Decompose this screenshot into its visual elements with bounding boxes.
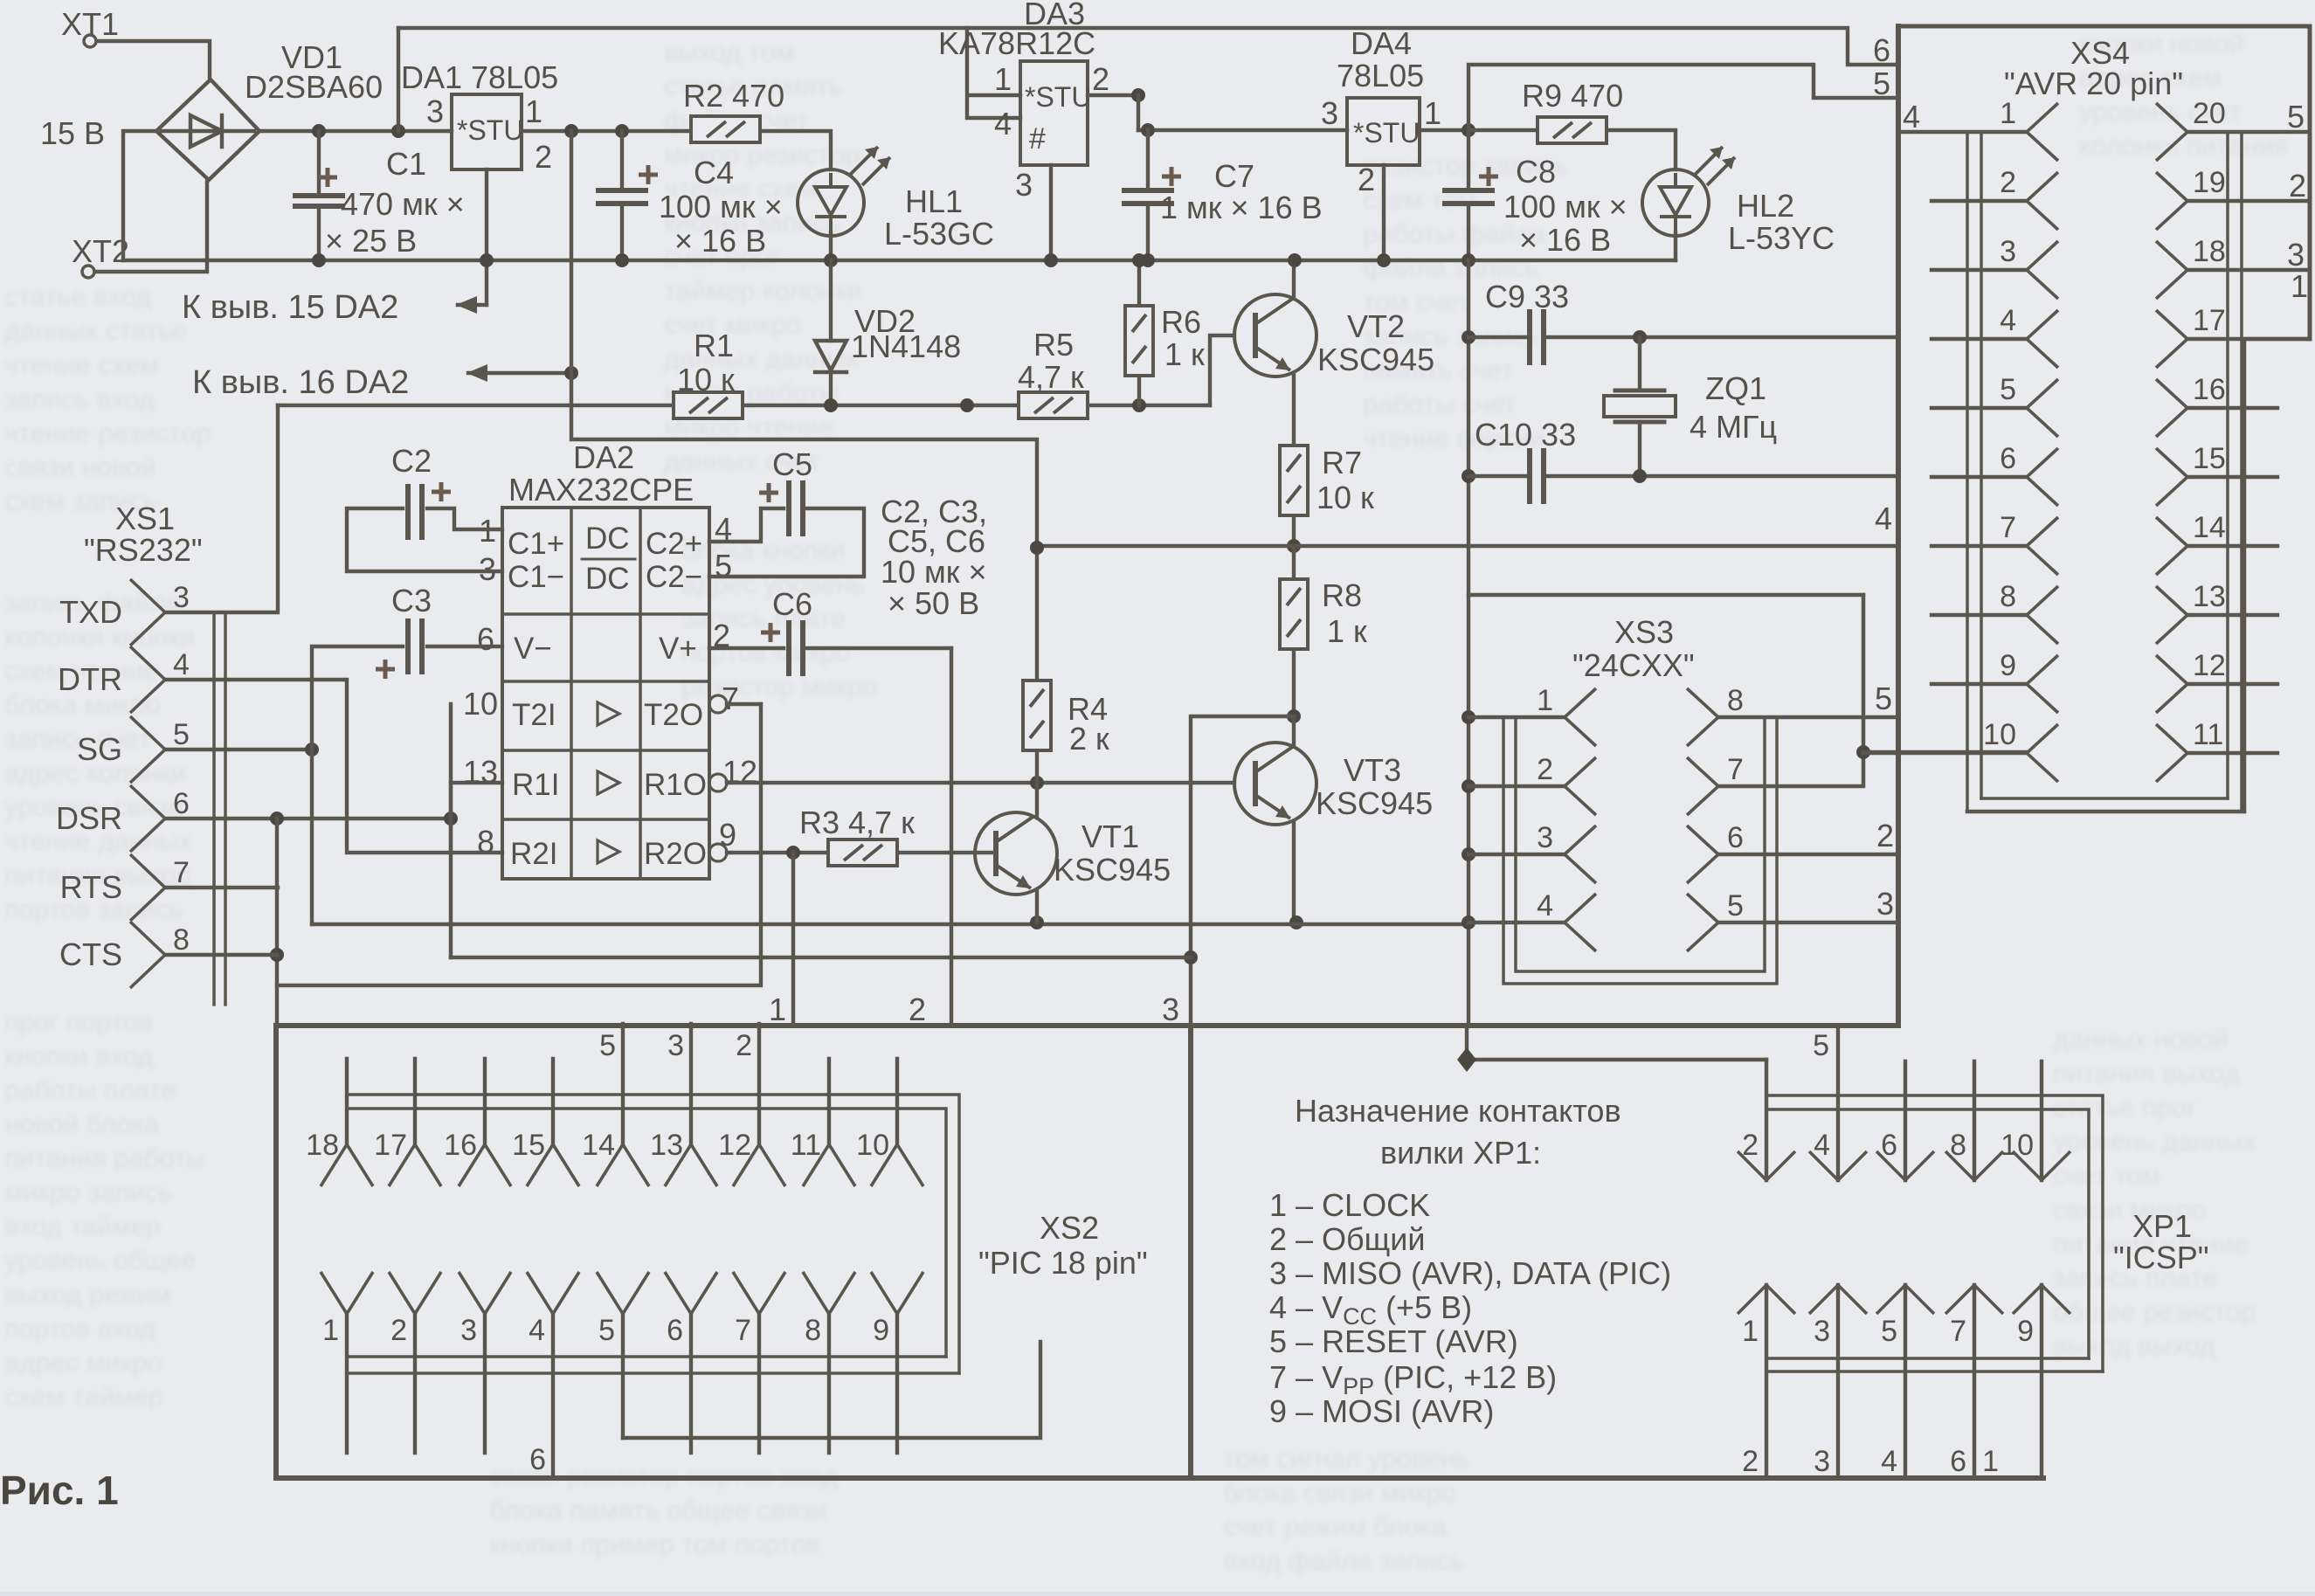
capacitor C1 [293, 196, 345, 206]
junction DSR XS2edge [270, 812, 284, 826]
svg-text:вход таймер: вход таймер [4, 1211, 161, 1241]
XS3 left pin 3 junction [1462, 847, 1475, 861]
svg-text:HL2: HL2 [1737, 188, 1794, 224]
resistor R4 [1023, 681, 1051, 750]
XS3 box top edge [1468, 593, 1863, 598]
wire +15V riser to top line [397, 28, 400, 131]
XP1 bottom pin 9 stem [2040, 1285, 2043, 1478]
wire RTS row [165, 886, 278, 889]
svg-text:6: 6 [1881, 1129, 1897, 1162]
svg-text:C10 33: C10 33 [1475, 417, 1576, 453]
XS4 right pin 18 chevron [2156, 241, 2187, 299]
junction SG node [305, 743, 319, 757]
XP1 bottom pin 5 stem [1904, 1285, 1907, 1478]
XS2 top pin 14 chevron [597, 1144, 649, 1186]
C6 plus [761, 623, 780, 642]
svg-text:10: 10 [856, 1129, 889, 1162]
svg-text:6: 6 [1950, 1445, 1966, 1478]
svg-text:1: 1 [2000, 97, 2016, 130]
svg-text:2: 2 [1537, 753, 1553, 786]
svg-text:3: 3 [1537, 821, 1553, 854]
XS2 top pin 16 stem [483, 1059, 487, 1144]
XS2 bottom pin 5 chevron [597, 1272, 649, 1314]
resistor R8 leads [1292, 546, 1296, 716]
svg-text:связи новой: связи новой [4, 452, 156, 482]
svg-text:15: 15 [512, 1129, 545, 1162]
svg-text:портов микро: портов микро [681, 637, 850, 667]
resistor R2 [691, 116, 760, 142]
XP1 bottom pin 9 arrow [2013, 1285, 2070, 1314]
XS2 box right edge [1188, 1026, 1193, 1478]
svg-text:XP1: XP1 [2132, 1208, 2192, 1244]
svg-text:CTS: CTS [59, 936, 122, 972]
wire R5 right to node [1089, 404, 1210, 407]
wire XT2 to bridge [95, 182, 207, 272]
wire DA4 out [1420, 128, 1468, 132]
wire CTS to T2O link [277, 704, 761, 985]
resistor R5 [1019, 392, 1088, 418]
junction small blob [960, 398, 974, 412]
XS3 right pin 7 chevron [1687, 757, 1718, 815]
svg-text:1: 1 [2291, 268, 2308, 304]
wire DA1 pin2 to ground [485, 169, 488, 305]
svg-text:KSC945: KSC945 [1317, 342, 1434, 377]
svg-text:4: 4 [1875, 501, 1892, 536]
DA2 buffer triangle 2 [598, 771, 619, 794]
svg-text:C6: C6 [772, 586, 812, 622]
svg-text:10: 10 [1983, 718, 2016, 751]
junction ZQ1 bottom [1633, 469, 1647, 483]
XS4 left pin 4 chevron [2027, 310, 2058, 368]
svg-text:× 25 В: × 25 В [325, 223, 417, 259]
wire T2I column [449, 704, 453, 957]
XS4 right bus a [2226, 133, 2229, 798]
svg-text:T2I: T2I [512, 698, 556, 732]
XP1 bottom pin 3 arrow [1809, 1285, 1867, 1314]
svg-text:2: 2 [736, 1029, 752, 1062]
XS1 pin DTR chevron [130, 646, 165, 713]
svg-text:5: 5 [599, 1029, 616, 1062]
XS4 left pin 9 chevron [2027, 655, 2058, 713]
capacitor C8 leads [1467, 130, 1470, 260]
XS2 top pin 17 stem [413, 1059, 417, 1144]
XS1 pin RTS chevron [130, 854, 165, 921]
svg-text:работы счет: работы счет [1363, 389, 1517, 419]
regulator DA4 box [1347, 98, 1420, 165]
svg-text:XT1: XT1 [61, 6, 119, 42]
resistor R6 leads [1137, 260, 1141, 405]
wire DA3 pin1 riser [967, 28, 1020, 118]
DA2 internal grid [502, 508, 709, 879]
XP1 bottom pin 1 arrow [1738, 1285, 1795, 1314]
svg-text:20: 20 [2193, 97, 2226, 130]
svg-text:VT2: VT2 [1347, 308, 1405, 344]
svg-text:1: 1 [1742, 1315, 1759, 1348]
svg-text:C1+: C1+ [508, 527, 564, 561]
svg-text:5: 5 [1727, 889, 1744, 922]
XP1 top pin 2 stem [1765, 1060, 1768, 1180]
wire net2 riser [950, 648, 953, 1024]
XS1 pin TXD chevron [130, 579, 165, 646]
wire +12V rail [1138, 128, 1347, 132]
resistor R7 leads [1292, 515, 1296, 546]
junction VT2 collector ground [1288, 253, 1302, 267]
svg-text:"PIC 18 pin": "PIC 18 pin" [978, 1245, 1148, 1281]
XS3 left pin 4 junction [1462, 915, 1475, 929]
XS4 right pin 18 row [2187, 268, 2310, 272]
XS4 left pin 5 row [1931, 406, 2027, 410]
svg-text:2: 2 [2289, 168, 2306, 204]
junction CTS XS2edge [270, 948, 284, 962]
svg-text:XS3: XS3 [1614, 614, 1674, 650]
bridge VD1 internal diode [162, 115, 254, 147]
svg-text:8: 8 [1727, 684, 1744, 717]
C3 plus [376, 660, 395, 679]
svg-text:выход том: выход том [664, 37, 795, 67]
wire R4 feed [1035, 548, 1039, 681]
C8 plus [1479, 167, 1498, 186]
svg-text:блока связи микро: блока связи микро [1223, 1477, 1456, 1508]
wire T2O out [727, 702, 761, 706]
svg-text:чтение резистор: чтение резистор [4, 418, 211, 448]
svg-text:4 МГц: 4 МГц [1690, 409, 1777, 445]
svg-text:10: 10 [463, 686, 498, 722]
junction R6 top ground [1132, 253, 1146, 267]
XP1 top pin 10 stem [2040, 1061, 2043, 1180]
XS4 left pin 3 row [1931, 268, 2027, 272]
diode VD2 leads [829, 260, 833, 405]
svg-text:C7: C7 [1214, 158, 1254, 194]
svg-text:11: 11 [2193, 718, 2223, 751]
svg-text:12: 12 [718, 1129, 751, 1162]
C2 plus [432, 482, 451, 501]
svg-text:× 16 В: × 16 В [1519, 222, 1611, 258]
svg-text:R1I: R1I [512, 768, 559, 802]
wire R4 bottom lead [1035, 750, 1039, 783]
wire C5 loop [709, 508, 864, 577]
XS4 right pin 16 chevron [2156, 379, 2187, 437]
svg-text:статье вход: статье вход [4, 281, 151, 312]
svg-text:данных новой: данных новой [2053, 1024, 2229, 1054]
XS2 top pin 10 chevron [871, 1144, 923, 1186]
svg-text:ZQ1: ZQ1 [1705, 370, 1766, 406]
svg-text:5: 5 [1873, 66, 1890, 101]
XS3 left pin 2 junction [1462, 779, 1475, 793]
XS4 right frame corner [2244, 339, 2310, 812]
XS2 top pin 12 chevron [733, 1144, 785, 1186]
wire VT3 emitter [1292, 821, 1296, 922]
svg-text:DSR: DSR [56, 800, 122, 836]
svg-text:18: 18 [2193, 235, 2226, 268]
svg-text:1 к: 1 к [1327, 613, 1367, 649]
svg-text:XS1: XS1 [115, 501, 175, 536]
svg-text:7 – VPP (PIC, +12 В): 7 – VPP (PIC, +12 В) [1269, 1359, 1557, 1399]
svg-text:TXD: TXD [59, 594, 122, 630]
junction C4 top [615, 124, 629, 138]
svg-text:18: 18 [306, 1129, 339, 1162]
XP1 top pin 4 arrow [1809, 1151, 1867, 1180]
regulator DA3 box [1020, 61, 1088, 165]
wire y464 R1 row [278, 404, 1019, 407]
DA2 buffer triangle 1 [598, 702, 619, 725]
svg-text:3: 3 [2287, 237, 2305, 273]
XS3 pin8 net5 row [1718, 715, 1898, 719]
svg-text:1: 1 [1424, 95, 1441, 131]
svg-text:1 мк × 16 В: 1 мк × 16 В [1160, 190, 1323, 225]
svg-text:К выв. 16 DA2: К выв. 16 DA2 [192, 364, 409, 401]
svg-text:17: 17 [2193, 304, 2226, 337]
XS2 top pin 18 chevron [321, 1144, 373, 1186]
junction R4 bottom [1030, 776, 1044, 790]
svg-text:R5: R5 [1033, 327, 1074, 363]
resistor R9 [1538, 117, 1607, 143]
svg-text:RTS: RTS [60, 869, 122, 905]
XS2 bottom bus b [347, 1371, 959, 1375]
wire net4 line [1037, 544, 1898, 548]
svg-text:1: 1 [525, 93, 542, 129]
junction DA3 out [1131, 88, 1145, 102]
capacitor C7 [1122, 190, 1174, 204]
wire VT1 collector [1035, 783, 1039, 816]
XS3 left pin 2 row [1468, 784, 1565, 788]
svg-text:6: 6 [2000, 442, 2016, 475]
XS2 bottom pin 4 stem [551, 1314, 555, 1478]
XS4 left pin 9 row [1931, 682, 2027, 686]
svg-text:C4: C4 [694, 155, 734, 190]
svg-text:KA78R12C: KA78R12C [938, 25, 1095, 61]
svg-text:2 к: 2 к [1069, 721, 1109, 757]
wire ground to XP1 pin2 [1467, 1026, 1766, 1060]
svg-text:9: 9 [719, 817, 736, 853]
XS4 right pin 16 row [2187, 406, 2277, 410]
svg-text:8: 8 [173, 923, 190, 957]
XS4 left pin 4 row [1931, 337, 2027, 341]
svg-text:10 к: 10 к [677, 362, 735, 397]
svg-text:3: 3 [667, 1029, 684, 1062]
wire R1O row [727, 781, 1234, 784]
XS4 box top edge [1898, 24, 2310, 29]
svg-text:470 мк ×: 470 мк × [341, 186, 465, 222]
junction net3 lineB [1184, 950, 1198, 964]
XS3 left pin 4 chevron [1565, 894, 1596, 951]
svg-text:5: 5 [1881, 1315, 1897, 1348]
svg-text:13: 13 [463, 754, 498, 790]
transistor VT2 [1234, 294, 1316, 377]
wire XS1 bus line b [224, 612, 227, 1005]
XP1 top pin 2 arrow [1738, 1151, 1795, 1180]
XS4 right pin 20 chevron [2156, 103, 2187, 161]
svg-text:2: 2 [1742, 1445, 1759, 1478]
XS2 bottom pin 3 stem [483, 1314, 487, 1453]
XS2 bottom pin 6 chevron [665, 1272, 717, 1314]
svg-text:вилки XP1:: вилки XP1: [1380, 1135, 1541, 1171]
XS4 right pin 11 row [2187, 751, 2277, 755]
wire XT1 to bridge [97, 41, 210, 78]
XS3 left pin 3 chevron [1565, 826, 1596, 883]
svg-text:питания выход: питания выход [2053, 1058, 2240, 1088]
svg-text:11: 11 [791, 1129, 821, 1162]
XP1 top pin 10 arrow [2013, 1151, 2070, 1180]
svg-text:1: 1 [322, 1314, 339, 1347]
XS4 left pin 2 row [1931, 199, 2027, 203]
XS3 left pin 3 row [1468, 853, 1565, 856]
capacitor C3 [408, 618, 422, 674]
svg-text:5 – RESET (AVR): 5 – RESET (AVR) [1269, 1323, 1518, 1359]
junction R8 bottom [1287, 709, 1301, 723]
svg-text:R9 470: R9 470 [1522, 78, 1623, 114]
XS4 right pin 20 row [2187, 130, 2310, 134]
terminal XT2 [82, 266, 94, 278]
XP1 top bus a [1769, 1095, 2103, 1371]
svg-text:2: 2 [390, 1314, 407, 1347]
XS4 left bus b [1980, 132, 1983, 798]
svg-text:V−: V− [514, 632, 552, 666]
XS3 inner bus outer [1503, 717, 1777, 984]
svg-text:R2 470: R2 470 [683, 78, 784, 114]
terminal XT1 [84, 35, 96, 47]
XS4 left pin 8 chevron [2027, 586, 2058, 644]
XS4 left pin 1 chevron [2027, 103, 2058, 161]
svg-text:T2O: T2O [644, 698, 703, 732]
svg-text:1 – CLOCK: 1 – CLOCK [1269, 1187, 1430, 1223]
XS4 right pin 14 chevron [2156, 517, 2187, 575]
svg-text:1: 1 [769, 991, 786, 1027]
svg-text:C5: C5 [772, 446, 812, 482]
svg-text:новой блока: новой блока [4, 1109, 160, 1139]
svg-text:6: 6 [1727, 821, 1744, 854]
svg-text:счет том: счет том [2053, 1160, 2160, 1191]
junction C7 top [1141, 123, 1155, 137]
resistor R8 [1280, 579, 1308, 649]
svg-text:1: 1 [1982, 1445, 1999, 1478]
regulator DA1 box [452, 94, 522, 169]
svg-text:4: 4 [1881, 1445, 1897, 1478]
capacitor C7 leads [1146, 130, 1150, 260]
XS4 right pin 11 chevron [2156, 724, 2187, 782]
svg-text:работы плате: работы плате [4, 1074, 176, 1105]
junction C4 ground [615, 253, 629, 267]
svg-text:DC: DC [585, 522, 630, 556]
wire VT2 base [1210, 335, 1234, 405]
svg-text:данных статье: данных статье [4, 315, 187, 346]
XS3 right pin 5 chevron [1687, 894, 1718, 951]
svg-text:× 50 В: × 50 В [888, 585, 979, 621]
svg-text:C8: C8 [1516, 154, 1556, 190]
XS4 left pin 5 chevron [2027, 379, 2058, 437]
XS2 top pin 16 chevron [459, 1144, 511, 1186]
svg-text:3: 3 [479, 551, 496, 587]
XP1 pin4 stem up [1836, 1026, 1840, 1180]
svg-text:C1: C1 [386, 146, 426, 182]
XS4 right pin 13 row [2187, 613, 2277, 617]
svg-text:#: # [1029, 122, 1046, 155]
svg-text:VT3: VT3 [1344, 752, 1401, 788]
svg-text:9: 9 [2000, 649, 2016, 682]
svg-text:KSC945: KSC945 [1316, 785, 1433, 821]
XS2 box bottom edge / rail to XP1 [276, 1475, 2043, 1481]
arrow to DA2 pin15 [456, 296, 477, 314]
svg-text:3: 3 [460, 1314, 477, 1347]
junction R5 R6 node [1132, 398, 1146, 412]
XS2 top pin 15 stem [551, 1059, 555, 1144]
svg-text:15: 15 [2193, 442, 2226, 475]
XP1 bottom pin 5 arrow [1876, 1285, 1934, 1314]
XP1 bottom pin 7 stem [1973, 1285, 1976, 1478]
XP1 bottom bus b [1769, 1370, 2103, 1373]
svg-text:R1: R1 [694, 328, 734, 363]
svg-text:L-53GC: L-53GC [884, 216, 994, 252]
svg-text:9 – MOSI (AVR): 9 – MOSI (AVR) [1269, 1393, 1494, 1429]
resistor R6 [1125, 306, 1153, 376]
svg-text:R2I: R2I [510, 837, 557, 871]
svg-text:19: 19 [2193, 166, 2226, 199]
IC DA2 box [502, 508, 709, 879]
svg-text:3: 3 [426, 93, 444, 129]
svg-text:16: 16 [2193, 373, 2226, 406]
svg-text:100 мк ×: 100 мк × [1503, 189, 1627, 225]
LED HL1 [798, 147, 890, 236]
svg-text:*STU: *STU [1025, 81, 1091, 113]
wire CTS row [165, 953, 277, 957]
svg-text:C1−: C1− [508, 560, 564, 594]
C7 plus [1162, 167, 1181, 186]
junction VT3 emitter [1289, 915, 1303, 929]
svg-text:7: 7 [173, 856, 190, 889]
wire +12 riser [1137, 95, 1140, 130]
svg-text:2: 2 [1092, 61, 1109, 97]
DA2 buffer triangle 3 [598, 840, 619, 863]
wire C1 leads [317, 131, 321, 260]
svg-text:12: 12 [2193, 649, 2226, 682]
svg-text:7: 7 [2000, 511, 2016, 544]
XS2 bottom pin 9 chevron [871, 1272, 923, 1314]
svg-text:8: 8 [805, 1314, 821, 1347]
svg-text:2: 2 [1358, 162, 1375, 197]
svg-text:R1O: R1O [644, 768, 707, 802]
svg-text:К выв. 15 DA2: К выв. 15 DA2 [182, 289, 398, 326]
svg-text:2: 2 [909, 991, 926, 1027]
svg-text:10 к: 10 к [1316, 480, 1374, 515]
XS3 left pin 1 chevron [1565, 688, 1596, 746]
wire C6 row [709, 646, 951, 650]
XS3 box right edge [1862, 595, 1866, 784]
svg-text:микро запись: микро запись [4, 1177, 173, 1207]
svg-text:1: 1 [1537, 684, 1553, 717]
XS1 pin CTS chevron [130, 922, 165, 988]
wire VT2 emitter [1292, 373, 1296, 446]
wire +5V to DA2 pin16 line [468, 371, 571, 375]
svg-text:8: 8 [477, 824, 494, 860]
svg-text:выход выход: выход выход [2053, 1330, 2215, 1361]
resistor R3 [828, 839, 897, 866]
svg-text:13: 13 [650, 1129, 683, 1162]
XS2 bottom pin 5 stem [621, 1314, 625, 1438]
svg-text:DC: DC [585, 562, 630, 596]
svg-text:13: 13 [2193, 580, 2226, 613]
XS4 left pin 7 row [1931, 544, 2027, 548]
XS3 left pin 4 row [1468, 921, 1565, 924]
svg-text:6: 6 [529, 1443, 546, 1476]
XS2 bottom pin 9 stem [895, 1314, 899, 1453]
svg-text:6: 6 [1873, 32, 1890, 68]
wire +15V rail [259, 129, 452, 133]
wire net3 jog [1191, 716, 1294, 1024]
svg-text:2: 2 [1876, 818, 1894, 853]
svg-text:2: 2 [535, 139, 552, 175]
svg-text:*STU: *STU [457, 114, 523, 146]
XS2 top pin 18 stem [345, 1059, 349, 1144]
XS3 left pin 1 row [1468, 715, 1565, 719]
